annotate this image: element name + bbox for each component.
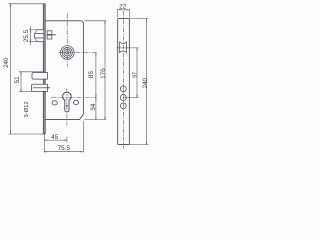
- svg-text:240: 240: [142, 77, 149, 88]
- svg-text:34: 34: [90, 103, 97, 111]
- svg-text:25.5: 25.5: [23, 29, 30, 42]
- svg-text:85: 85: [88, 71, 95, 79]
- svg-text:51: 51: [14, 76, 21, 84]
- svg-text:176: 176: [100, 68, 107, 79]
- svg-text:3-Ø12: 3-Ø12: [24, 101, 30, 117]
- svg-text:75.5: 75.5: [58, 145, 71, 152]
- svg-text:97: 97: [132, 72, 138, 78]
- svg-text:45: 45: [51, 134, 59, 141]
- svg-text:240: 240: [3, 57, 10, 68]
- svg-text:22: 22: [119, 4, 127, 11]
